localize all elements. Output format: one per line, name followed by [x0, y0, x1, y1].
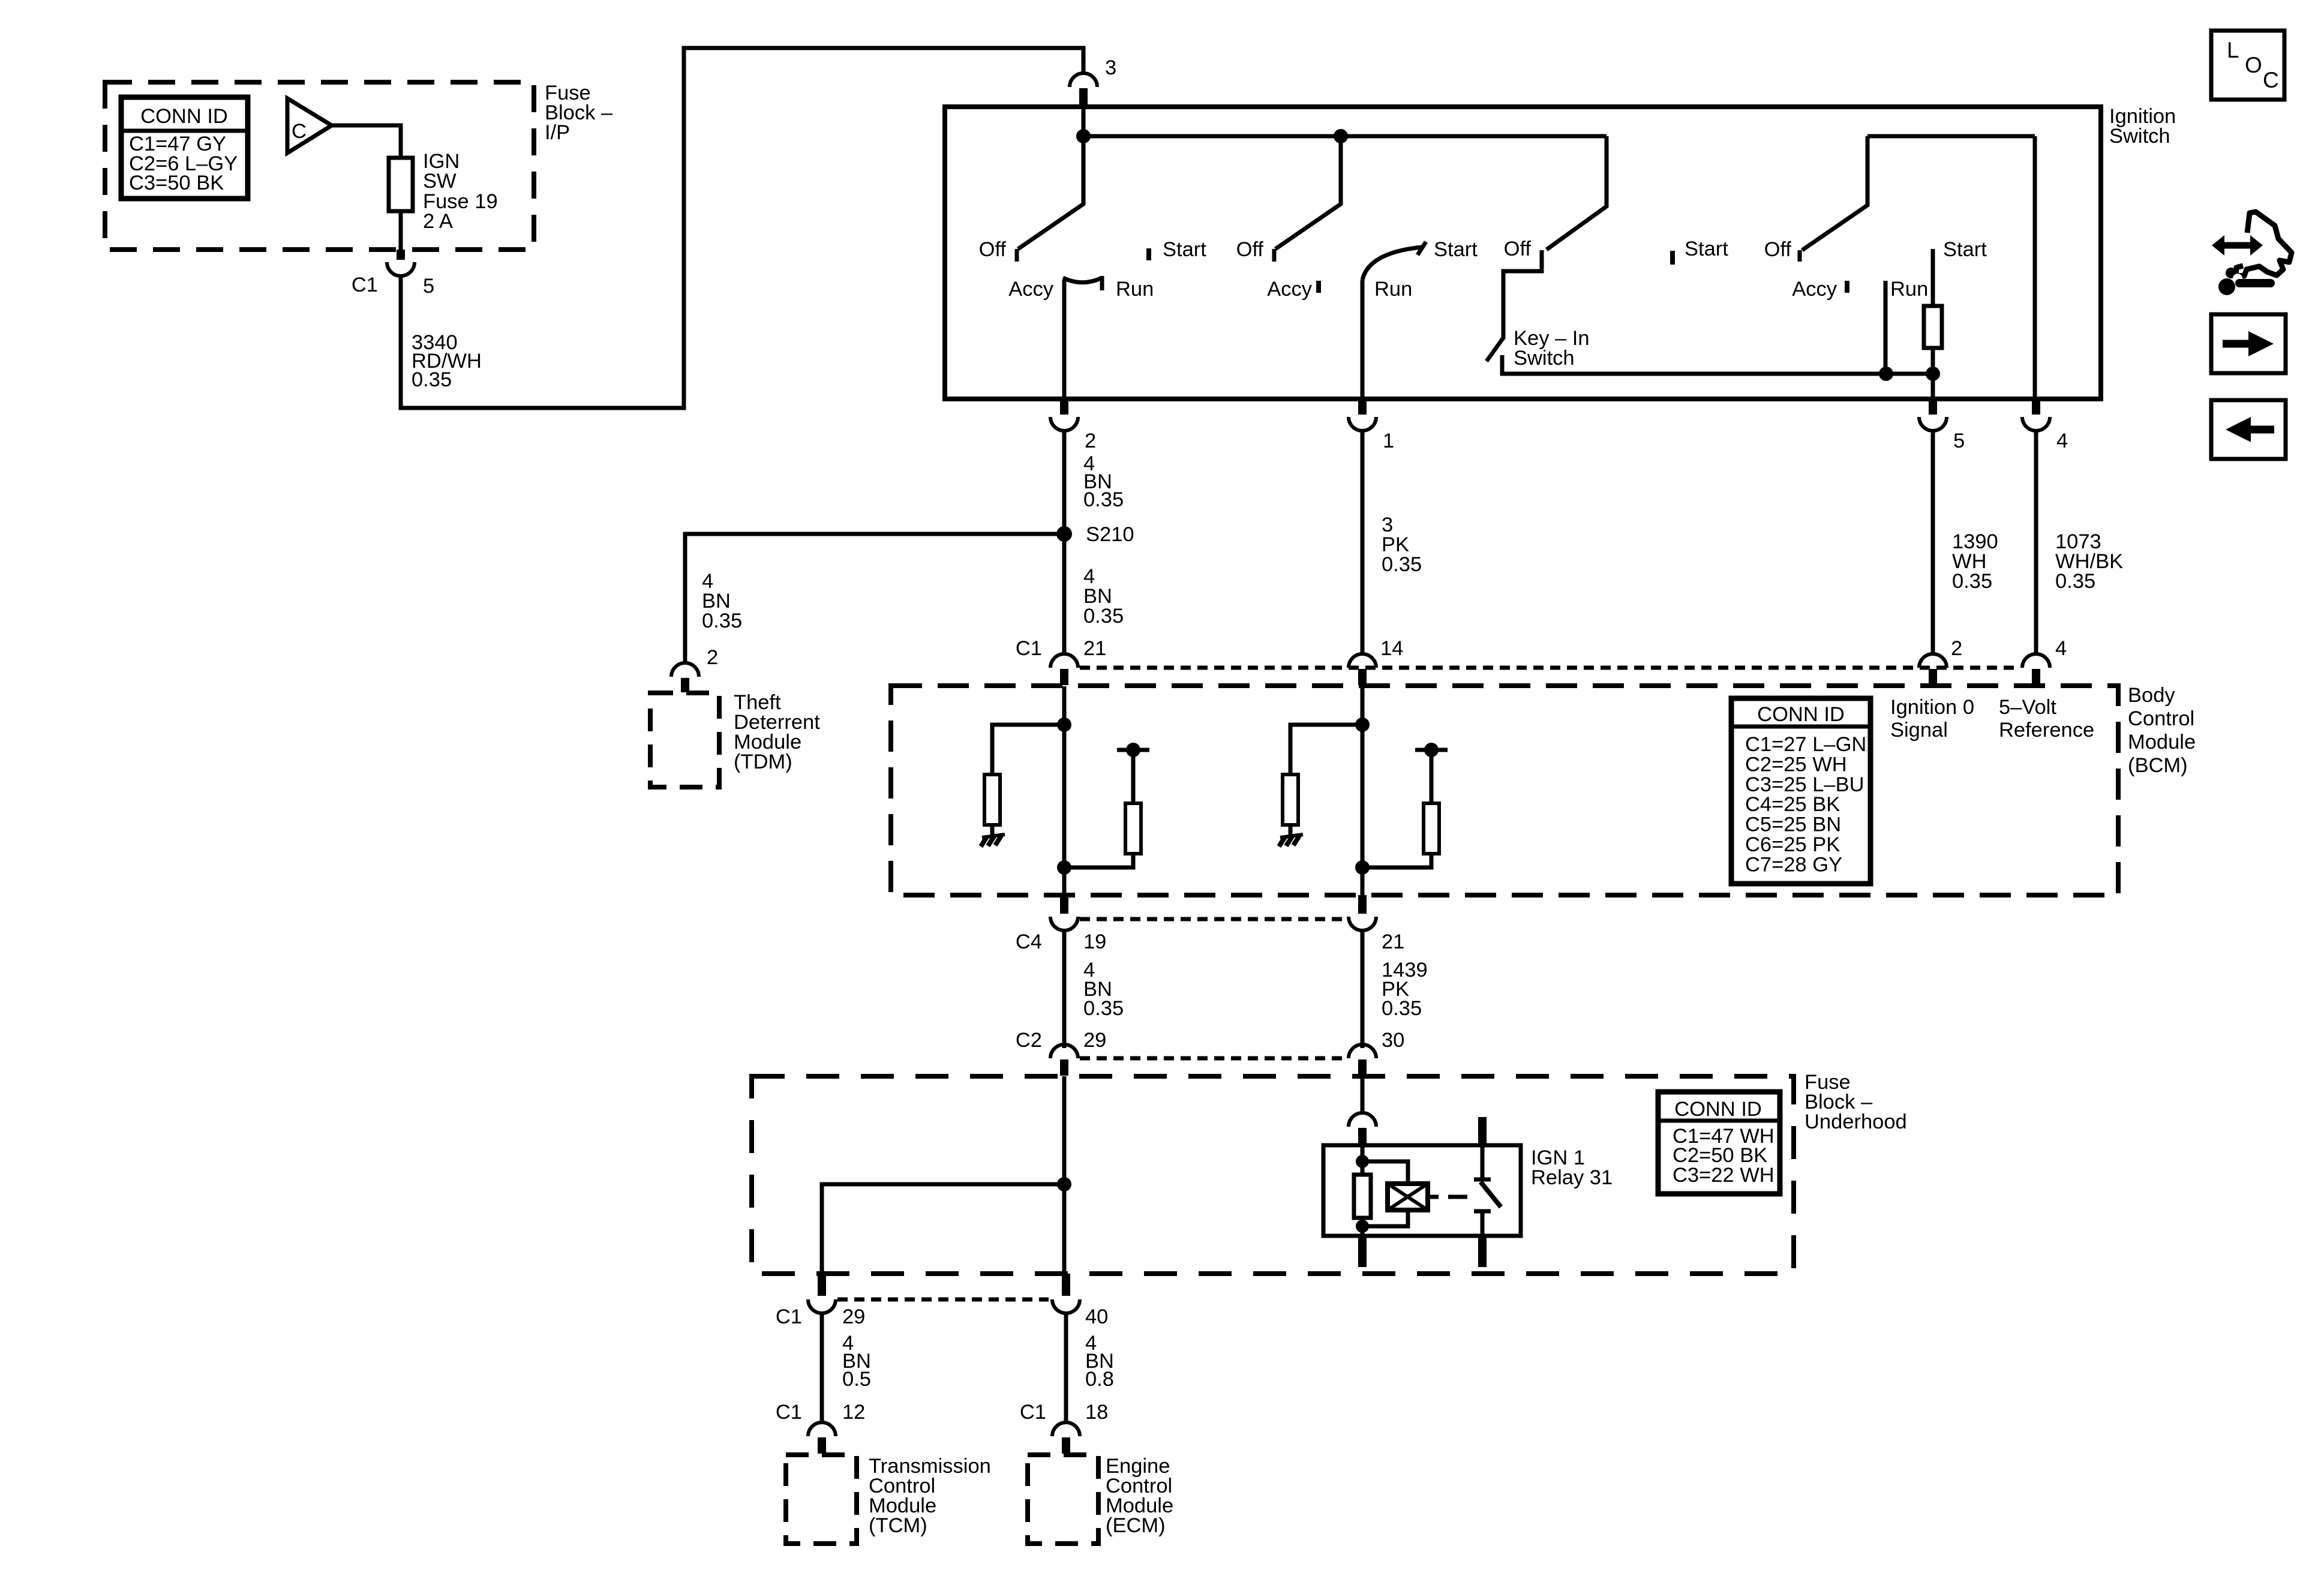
svg-text:O: O [2245, 53, 2262, 77]
svg-text:(ECM): (ECM) [1106, 1514, 1166, 1537]
svg-text:4: 4 [2056, 430, 2068, 452]
svg-text:C3=25 L–BU: C3=25 L–BU [1745, 773, 1864, 796]
svg-text:40: 40 [1085, 1305, 1108, 1328]
svg-text:0.35: 0.35 [2055, 570, 2095, 593]
svg-text:1: 1 [1383, 430, 1394, 452]
svg-text:2 A: 2 A [423, 210, 453, 233]
svg-text:21: 21 [1083, 637, 1106, 660]
svg-text:C1: C1 [352, 274, 378, 296]
svg-text:C4: C4 [1016, 930, 1042, 953]
svg-text:C4=25 BK: C4=25 BK [1745, 793, 1840, 816]
svg-text:CONN ID: CONN ID [1674, 1098, 1762, 1121]
svg-text:Module: Module [2128, 731, 2196, 754]
svg-text:30: 30 [1382, 1029, 1404, 1052]
svg-text:12: 12 [842, 1401, 865, 1424]
svg-text:0.35: 0.35 [1083, 605, 1124, 628]
svg-text:CONN ID: CONN ID [140, 105, 228, 128]
svg-text:C1: C1 [776, 1305, 802, 1328]
svg-text:Ignition 0: Ignition 0 [1890, 696, 1974, 719]
svg-text:0.35: 0.35 [1382, 997, 1422, 1020]
svg-text:Start: Start [1685, 238, 1728, 260]
svg-text:0.35: 0.35 [1952, 570, 1992, 593]
svg-text:Off: Off [1236, 238, 1264, 261]
svg-text:C3=22 WH: C3=22 WH [1673, 1164, 1774, 1187]
svg-text:Run: Run [1374, 278, 1412, 301]
svg-text:4: 4 [2055, 637, 2067, 660]
svg-text:Control: Control [2128, 707, 2194, 730]
svg-text:Run: Run [1890, 278, 1928, 301]
svg-text:(BCM): (BCM) [2128, 754, 2188, 777]
svg-text:0.8: 0.8 [1085, 1368, 1114, 1391]
svg-text:C: C [2263, 68, 2279, 92]
svg-text:2: 2 [707, 646, 718, 669]
svg-text:Start: Start [1434, 238, 1478, 261]
svg-text:3: 3 [1105, 56, 1116, 79]
svg-text:C7=28 GY: C7=28 GY [1745, 853, 1842, 876]
svg-text:2: 2 [1085, 430, 1096, 452]
svg-text:C6=25 PK: C6=25 PK [1745, 833, 1840, 856]
svg-text:Off: Off [979, 238, 1007, 261]
svg-text:C1=27 L–GN: C1=27 L–GN [1745, 733, 1866, 756]
svg-text:14: 14 [1380, 637, 1403, 660]
svg-text:0.35: 0.35 [1382, 553, 1422, 576]
svg-text:L: L [2227, 38, 2239, 62]
svg-text:18: 18 [1085, 1401, 1108, 1424]
svg-text:S210: S210 [1086, 523, 1134, 546]
svg-text:Accy: Accy [1792, 278, 1837, 301]
svg-text:Off: Off [1504, 238, 1532, 260]
svg-text:0.35: 0.35 [1083, 997, 1124, 1020]
svg-text:C2=25 WH: C2=25 WH [1745, 753, 1847, 776]
svg-text:Switch: Switch [1514, 347, 1575, 370]
svg-text:(TCM): (TCM) [869, 1514, 927, 1537]
svg-text:Accy: Accy [1008, 278, 1054, 301]
svg-text:C1: C1 [1020, 1401, 1046, 1424]
svg-text:Switch: Switch [2109, 125, 2170, 148]
svg-text:C2: C2 [1016, 1029, 1042, 1052]
svg-text:Accy: Accy [1267, 278, 1313, 301]
svg-text:Relay 31: Relay 31 [1531, 1166, 1613, 1189]
svg-text:C3=50 BK: C3=50 BK [129, 172, 224, 194]
svg-text:Signal: Signal [1890, 719, 1948, 742]
svg-text:19: 19 [1083, 930, 1106, 953]
svg-text:29: 29 [842, 1305, 865, 1328]
svg-text:C1: C1 [776, 1401, 802, 1424]
svg-text:0.35: 0.35 [702, 610, 742, 632]
svg-text:21: 21 [1382, 930, 1404, 953]
svg-text:5–Volt: 5–Volt [1999, 696, 2056, 719]
svg-text:C: C [292, 120, 307, 143]
svg-text:Off: Off [1764, 238, 1792, 261]
svg-text:Reference: Reference [1999, 719, 2094, 742]
svg-text:I/P: I/P [545, 121, 570, 144]
svg-text:29: 29 [1083, 1029, 1106, 1052]
svg-text:Start: Start [1163, 238, 1206, 261]
svg-text:C5=25 BN: C5=25 BN [1745, 813, 1841, 836]
svg-text:Run: Run [1116, 278, 1154, 301]
svg-text:5: 5 [1953, 430, 1965, 452]
svg-text:Body: Body [2128, 684, 2175, 707]
svg-text:(TDM): (TDM) [734, 751, 792, 773]
svg-text:SW: SW [423, 170, 457, 193]
svg-text:Start: Start [1943, 238, 1987, 261]
svg-text:0.35: 0.35 [412, 368, 452, 391]
svg-text:2: 2 [1951, 637, 1962, 660]
svg-text:0.35: 0.35 [1083, 488, 1124, 511]
svg-text:5: 5 [423, 275, 434, 298]
svg-text:C1: C1 [1016, 637, 1042, 660]
svg-text:Underhood: Underhood [1804, 1110, 1907, 1133]
svg-text:CONN ID: CONN ID [1757, 703, 1845, 726]
svg-text:0.5: 0.5 [842, 1368, 871, 1391]
